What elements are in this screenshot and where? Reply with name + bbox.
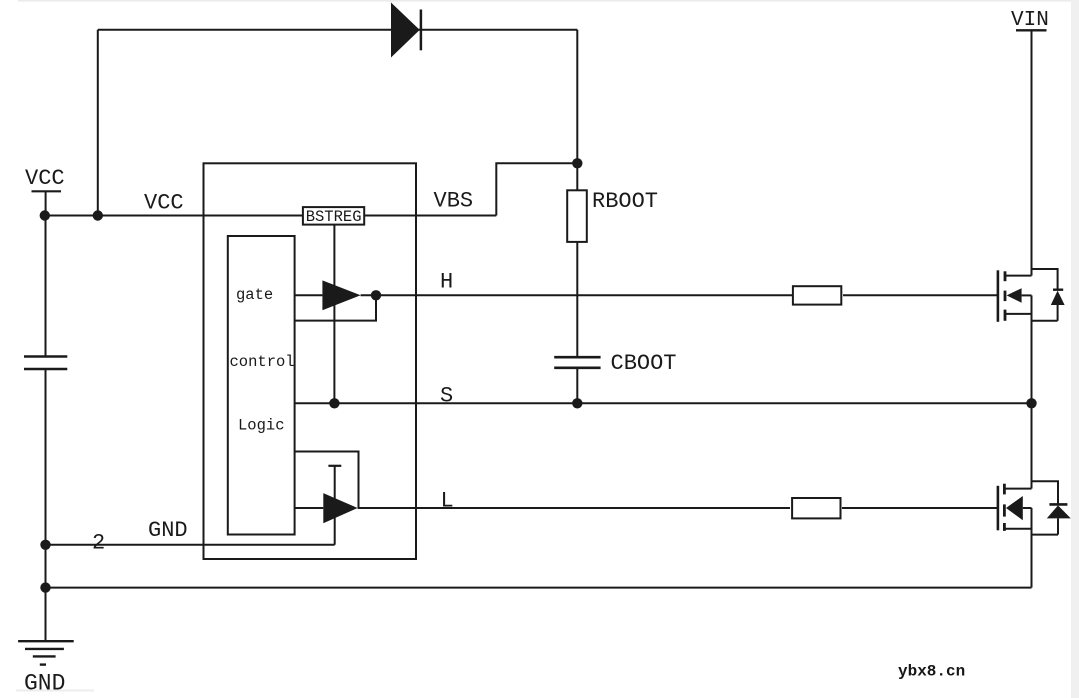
resistor RBOOT: [567, 190, 587, 242]
svg-text:GND: GND: [24, 671, 65, 697]
power symbol VIN: [1011, 9, 1049, 32]
svg-text:VCC: VCC: [144, 190, 184, 215]
transistor Q2 body arrow: [1006, 496, 1023, 520]
wire BSTREG to S node: [333, 225, 335, 404]
wire CBOOT to S: [576, 368, 578, 404]
wire buffer A2 input: [295, 507, 324, 509]
svg-text:gate: gate: [236, 286, 273, 304]
svg-text:H: H: [440, 270, 453, 295]
junction dot VCC rail / top loop: [93, 210, 103, 220]
wire buffer A1 feedback: [295, 295, 376, 320]
resistor R2 (low gate): [792, 498, 840, 518]
wire top-right drop to VBS node: [576, 30, 578, 164]
buffer A1 (high side driver): [322, 280, 360, 310]
page edge shading right: [1071, 0, 1079, 698]
wire H gate side: [843, 294, 998, 296]
transistor Q2 (low side MOSFET): [998, 403, 1032, 587]
wire top rail: [98, 29, 578, 31]
transistor Q1 (high side MOSFET): [998, 270, 1032, 403]
wire S net: [295, 402, 1032, 404]
capacitor CBOOT: [554, 357, 600, 368]
wire VIN drop: [1031, 30, 1033, 275]
transistor Q1 body arrow: [1007, 288, 1022, 303]
page edge shading top: [18, 0, 1079, 2]
wire top-left drop to VCC rail: [97, 30, 99, 216]
resistor R1 (high gate): [793, 286, 841, 304]
wire left branch lower: [45, 369, 47, 641]
svg-text:RBOOT: RBOOT: [592, 189, 658, 214]
buffer A2 (low side driver): [323, 493, 357, 523]
wire low-side feedback loop: [295, 452, 359, 509]
svg-text:control: control: [230, 353, 295, 371]
svg-text:2: 2: [92, 531, 105, 556]
diode D2 (Q1 body diode): [1032, 269, 1065, 321]
junction dot VCC symbol: [40, 210, 50, 220]
wire buffer A1 input: [295, 294, 323, 296]
svg-text:L: L: [441, 488, 454, 513]
wire RBOOT to CBOOT: [576, 242, 578, 357]
wire bottom rail: [46, 587, 1032, 589]
junction dot CBOOT / S: [572, 398, 582, 408]
wire L net: [358, 507, 790, 509]
ground symbol: [18, 641, 74, 664]
junction dot GND pin: [40, 540, 50, 550]
junction dot VBS node: [572, 158, 582, 168]
wire H net: [361, 294, 792, 296]
power symbol VCC: [25, 166, 65, 215]
diode D3 (Q2 body diode): [1032, 481, 1071, 534]
junction dot S / half-bridge midpoint: [1026, 398, 1036, 408]
wire left branch upper: [45, 216, 47, 357]
wire level-shift stem: [334, 466, 336, 545]
svg-text:GND: GND: [148, 518, 188, 543]
regulator BSTREG box: [303, 207, 364, 226]
page edge shading bottom-left: [16, 690, 94, 692]
gate control logic block: [228, 236, 295, 535]
junction dot S / BSTREG drop: [329, 398, 339, 408]
wire VCC rail: [45, 215, 497, 217]
svg-text:VBS: VBS: [434, 189, 474, 214]
wire GND pin: [46, 544, 335, 546]
wire L gate side: [842, 507, 998, 509]
svg-text:CBOOT: CBOOT: [611, 351, 677, 376]
junction dot bottom rail: [40, 582, 50, 592]
svg-text:BSTREG: BSTREG: [306, 208, 362, 226]
svg-text:VCC: VCC: [25, 166, 65, 191]
capacitor C1 (VCC bypass): [24, 357, 67, 370]
diode D1 (bootstrap): [391, 3, 421, 58]
junction dot A1 output: [371, 290, 381, 300]
IC U1 outline: [204, 163, 417, 559]
wire RBOOT top: [576, 163, 578, 190]
wire VBS pin riser: [496, 163, 577, 215]
svg-text:S: S: [440, 383, 453, 408]
svg-text:ybx8.cn: ybx8.cn: [898, 663, 965, 681]
svg-text:Logic: Logic: [238, 417, 285, 435]
svg-text:VIN: VIN: [1011, 9, 1049, 32]
level-shift symbol T: [328, 465, 341, 467]
